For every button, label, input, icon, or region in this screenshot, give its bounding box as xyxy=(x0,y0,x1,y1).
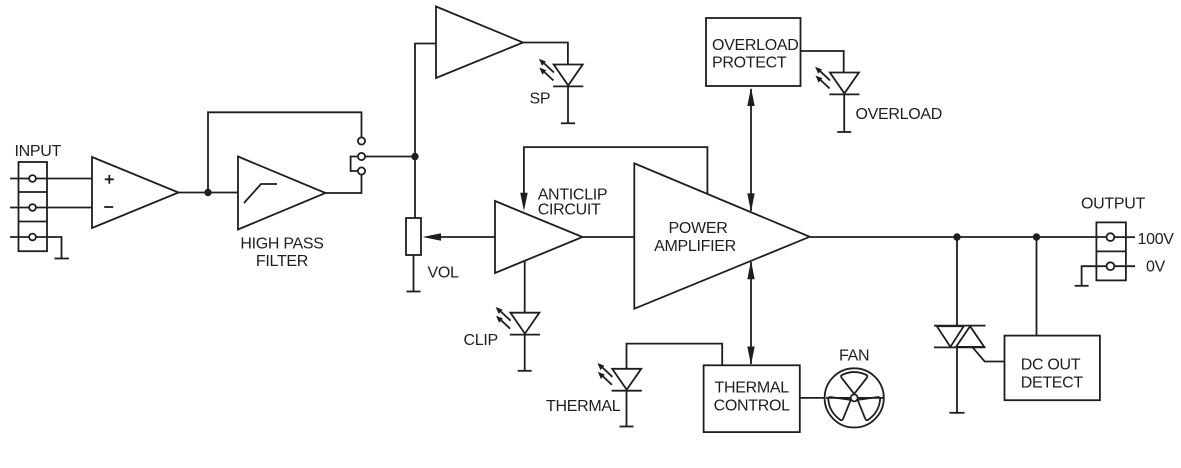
wire 0V tail xyxy=(1114,265,1135,267)
high pass filter U2 xyxy=(238,157,326,230)
arrowhead up to box xyxy=(747,88,754,107)
fan M1 xyxy=(825,368,884,427)
overload protect box xyxy=(706,18,801,86)
wire input cold to op-amp - xyxy=(10,207,92,209)
wire main output xyxy=(810,236,1107,238)
svg-text:CIRCUIT: CIRCUIT xyxy=(538,201,601,218)
anticlip arrowhead xyxy=(520,193,528,211)
triac Q1 xyxy=(934,326,986,348)
ground LED SP xyxy=(561,122,575,124)
wire thermal link xyxy=(750,262,752,364)
arrowhead down to thermal box xyxy=(747,347,754,366)
svg-text:DC OUT: DC OUT xyxy=(1021,356,1081,373)
ground VOL xyxy=(407,291,421,293)
wire LED CLIP cathode xyxy=(524,335,526,371)
wire op-amp out to HPF xyxy=(179,192,239,194)
pin - xyxy=(104,206,113,208)
svg-text:PROTECT: PROTECT xyxy=(712,55,787,72)
node C junction xyxy=(953,233,960,240)
wire triac gate xyxy=(973,347,1005,361)
node B junction xyxy=(411,153,418,160)
op-amp U1 xyxy=(92,157,179,228)
svg-text:OUTPUT: OUTPUT xyxy=(1081,195,1146,212)
svg-text:CONTROL: CONTROL xyxy=(714,398,791,415)
wire LED OVERLOAD cathode xyxy=(843,94,845,132)
switch S1 bracket xyxy=(351,157,358,172)
LED D1 SP xyxy=(539,59,583,87)
dc out detect box xyxy=(1005,336,1100,401)
LED D4 THERMAL xyxy=(597,363,641,391)
wire HPF out to switch bottom xyxy=(326,171,362,193)
wire node D to dc out detect xyxy=(1036,237,1038,336)
svg-text:OVERLOAD: OVERLOAD xyxy=(856,106,943,123)
svg-text:HIGH PASS: HIGH PASS xyxy=(240,235,323,252)
node A junction xyxy=(204,189,211,196)
wire LED SP cathode xyxy=(567,86,569,123)
node D junction xyxy=(1033,233,1040,240)
switch S1 contacts xyxy=(358,137,365,144)
thermal control box xyxy=(704,365,800,432)
svg-text:THERMAL: THERMAL xyxy=(546,398,621,415)
buffer amp U4 clip sense xyxy=(495,201,583,273)
connector J1 INPUT xyxy=(19,162,48,251)
svg-text:100V: 100V xyxy=(1138,231,1175,248)
wire box to LED OVERLOAD xyxy=(801,51,844,73)
svg-text:AMPLIFIER: AMPLIFIER xyxy=(654,238,736,255)
svg-text:FAN: FAN xyxy=(839,347,869,364)
wiper arrowhead xyxy=(423,233,441,240)
ground triac xyxy=(950,412,965,414)
wire overload link xyxy=(750,89,752,211)
pin + xyxy=(105,175,114,184)
ground LED CLIP xyxy=(518,370,532,372)
arrowhead up to amp bottom xyxy=(747,261,754,280)
svg-text:DETECT: DETECT xyxy=(1021,374,1084,391)
wire U4 to LED CLIP xyxy=(524,261,526,313)
connector J2 OUTPUT xyxy=(1096,222,1126,280)
power amplifier U5 xyxy=(634,163,809,308)
svg-text:POWER: POWER xyxy=(669,220,728,237)
wire input hot to op-amp + xyxy=(10,178,92,180)
svg-text:CLIP: CLIP xyxy=(464,332,498,349)
wire input shield xyxy=(10,237,62,259)
wire 0V ground xyxy=(1082,266,1107,286)
wire LED THERMAL cathode xyxy=(626,391,628,427)
svg-text:INPUT: INPUT xyxy=(15,143,62,160)
wire bypass loop to switch top xyxy=(208,112,362,192)
wire U3 out to LED SP xyxy=(523,43,568,65)
ground shield xyxy=(55,258,70,260)
wire triac branch xyxy=(956,237,958,413)
LED D3 OVERLOAD xyxy=(815,67,859,95)
wire wiper to buffer U4 xyxy=(438,236,495,238)
anticlip feedback wire xyxy=(524,147,708,200)
potentiometer VOL xyxy=(406,218,421,255)
svg-text:OVERLOAD: OVERLOAD xyxy=(712,37,799,54)
wire node B up to buffer U3 xyxy=(415,44,436,157)
LED D2 CLIP xyxy=(496,307,540,335)
svg-text:0V: 0V xyxy=(1146,259,1166,276)
ground LED THERMAL xyxy=(620,426,634,428)
arrowhead down to amp xyxy=(747,193,754,212)
ground LED OVERLOAD xyxy=(837,131,851,133)
svg-text:SP: SP xyxy=(530,91,551,108)
wire VOL bottom xyxy=(413,255,415,292)
wire fan link xyxy=(800,397,884,399)
svg-text:VOL: VOL xyxy=(428,265,460,282)
buffer amp U3 xyxy=(436,7,523,79)
ground 0V xyxy=(1075,285,1089,287)
wire switch pole to node B xyxy=(365,156,415,158)
wire thermal box to LED THERMAL xyxy=(627,344,723,369)
wire 100V tail xyxy=(1114,236,1135,238)
wire U4 out to power amp xyxy=(583,236,635,238)
wire node B down to VOL xyxy=(414,157,416,219)
svg-text:FILTER: FILTER xyxy=(256,253,308,270)
svg-text:THERMAL: THERMAL xyxy=(715,380,790,397)
